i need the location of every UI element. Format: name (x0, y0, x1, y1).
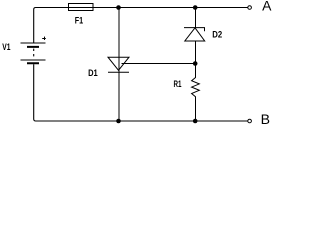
svg-text:F1: F1 (75, 15, 83, 25)
svg-text:D2: D2 (212, 28, 222, 39)
svg-text:V1: V1 (2, 42, 10, 52)
svg-text:R1: R1 (174, 79, 182, 89)
svg-text:D1: D1 (88, 67, 98, 78)
svg-text:B: B (261, 112, 270, 127)
svg-text:A: A (262, 0, 271, 14)
